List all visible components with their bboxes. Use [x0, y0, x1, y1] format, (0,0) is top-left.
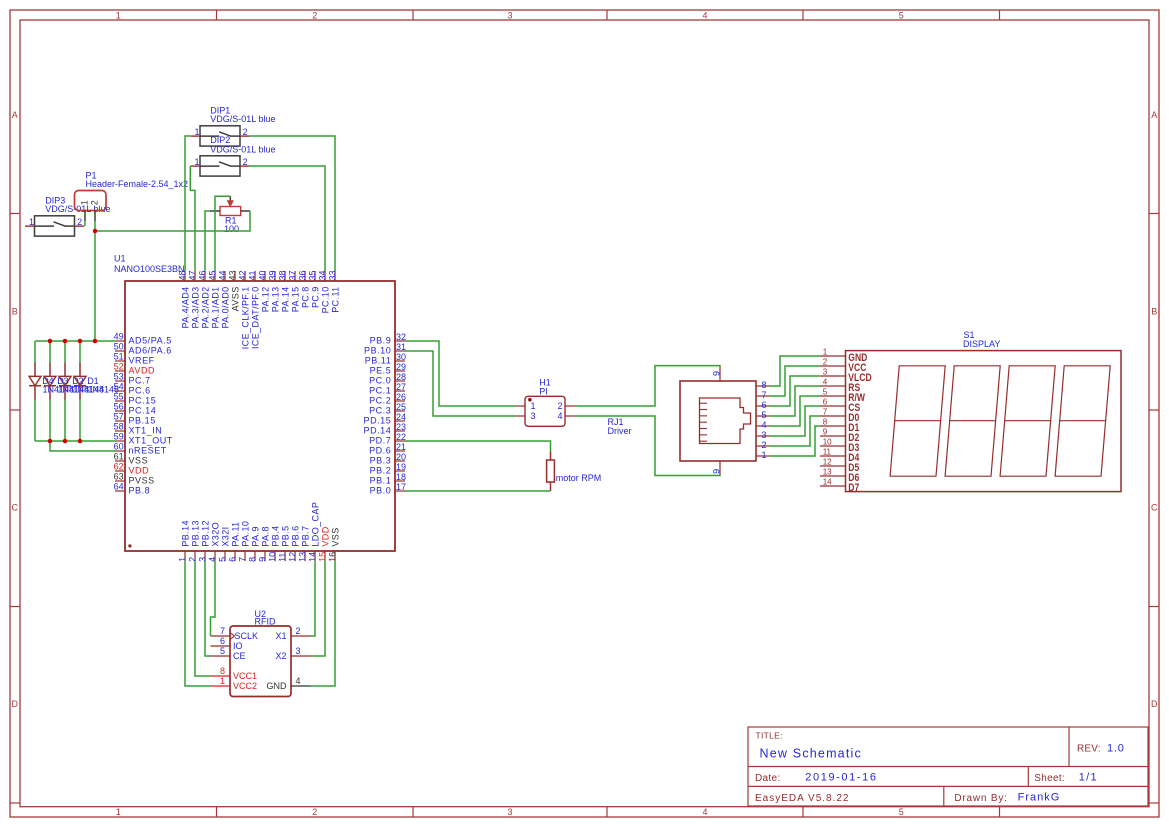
DIP3 pin 1 — [25, 217, 35, 227]
svg-text:PB.10: PB.10 — [364, 345, 391, 355]
svg-text:PC.7: PC.7 — [129, 375, 151, 385]
svg-text:35: 35 — [308, 270, 318, 280]
U1 pin 9 PA.8 — [258, 526, 271, 562]
svg-text:X32I: X32I — [220, 526, 230, 546]
wire RJ1 pin4 to S1 pin5 — [770, 396, 820, 426]
svg-text:RFID: RFID — [255, 616, 276, 626]
svg-text:DISPLAY: DISPLAY — [963, 339, 1000, 349]
svg-text:PB.14: PB.14 — [180, 520, 190, 547]
svg-text:4: 4 — [702, 10, 707, 20]
U1 pin 20 PB.3 — [370, 452, 406, 466]
svg-text:11: 11 — [823, 448, 832, 457]
svg-text:4: 4 — [557, 411, 562, 421]
U1 pin 46 PA.2/AD2 — [198, 270, 211, 328]
svg-text:VDG/S-01L blue: VDG/S-01L blue — [210, 144, 275, 154]
svg-text:PB.13: PB.13 — [190, 520, 200, 547]
U2 pin 1 VCC2 — [211, 676, 258, 691]
svg-text:3: 3 — [296, 646, 301, 656]
svg-text:6: 6 — [220, 636, 225, 646]
D4 labels — [42, 376, 74, 394]
svg-text:VDG/S-01L blue: VDG/S-01L blue — [210, 114, 275, 124]
H1 pin 1 — [515, 401, 536, 411]
U1 pin 19 PB.2 — [370, 462, 406, 476]
svg-text:6: 6 — [761, 400, 766, 410]
svg-text:58: 58 — [114, 422, 124, 432]
svg-text:PB.2: PB.2 — [370, 465, 392, 475]
U1 pin 59 XT1_OUT — [114, 432, 173, 446]
U1 pin 29 PE.5 — [370, 362, 406, 376]
U1 pin 33 PC.11 — [328, 270, 341, 312]
svg-text:PA.12: PA.12 — [260, 286, 270, 312]
svg-text:GND: GND — [267, 681, 288, 691]
svg-text:PE.5: PE.5 — [370, 365, 392, 375]
potentiometer R1 body — [210, 196, 250, 215]
svg-text:C: C — [1151, 503, 1158, 513]
svg-text:PA.13: PA.13 — [270, 286, 280, 312]
DIP2 labels — [210, 135, 275, 154]
svg-text:3: 3 — [507, 807, 512, 817]
svg-text:28: 28 — [396, 372, 406, 382]
svg-text:17: 17 — [396, 482, 406, 492]
svg-text:PA.14: PA.14 — [280, 286, 290, 312]
U1 pin 11 PB.5 — [278, 525, 291, 561]
svg-text:X1: X1 — [275, 631, 286, 641]
svg-text:1: 1 — [194, 157, 199, 167]
U1 pin 12 PB.6 — [288, 525, 301, 561]
svg-text:NANO100SE3BN: NANO100SE3BN — [114, 264, 185, 274]
junction node A at P1 pin2 — [93, 229, 98, 234]
D2 labels — [72, 376, 104, 394]
svg-text:3: 3 — [198, 557, 208, 562]
S1 pin 11 D4 — [820, 448, 860, 465]
wire H1 pin2 to RJ1 pin9 top — [576, 366, 720, 406]
U1 pin 37 PA.15 — [288, 270, 301, 312]
svg-text:3: 3 — [507, 10, 512, 20]
IC U2 body — [230, 626, 291, 697]
RJ1 pin 3 — [756, 430, 770, 440]
svg-text:2: 2 — [296, 626, 301, 636]
svg-text:PA.0/AD0: PA.0/AD0 — [220, 286, 230, 328]
svg-text:31: 31 — [396, 342, 406, 352]
diode D3 1N4148 — [44, 363, 56, 400]
S1 pin 2 VCC — [820, 358, 866, 375]
connector H1 body — [525, 396, 565, 426]
wire D3 branch — [49, 341, 51, 441]
U1 pin 30 PB.11 — [365, 352, 406, 366]
svg-text:PA.2/AD2: PA.2/AD2 — [200, 286, 210, 328]
svg-text:D7: D7 — [848, 482, 859, 494]
svg-text:38: 38 — [278, 270, 288, 280]
S1 pin 13 D6 — [820, 468, 860, 485]
U1 pin 34 PC.10 — [318, 270, 331, 313]
svg-text:VDG/S-01L blue: VDG/S-01L blue — [45, 204, 110, 214]
svg-text:27: 27 — [396, 382, 406, 392]
wire node A down to diode rail — [94, 231, 96, 341]
svg-text:VCC1: VCC1 — [233, 671, 257, 681]
svg-text:9: 9 — [258, 557, 268, 562]
resistor motor RPM — [547, 452, 602, 492]
svg-text:18: 18 — [396, 472, 406, 482]
wire P1 pin2 to node A — [94, 221, 96, 231]
svg-text:PB.7: PB.7 — [300, 525, 310, 546]
svg-text:PC.3: PC.3 — [369, 405, 391, 415]
svg-text:39: 39 — [268, 270, 278, 280]
U2 pin 6 IO — [211, 636, 243, 651]
U1 pin 56 PC.14 — [114, 402, 157, 416]
wire diode lower rail to U1 pin60 — [50, 441, 115, 451]
svg-text:2: 2 — [823, 358, 828, 367]
U1 pin 44 PA.0/AD0 — [218, 270, 231, 328]
U1 pin 49 AD5/PA.5 — [114, 332, 172, 346]
svg-text:CE: CE — [233, 651, 246, 661]
RJ1 pin 8 — [756, 380, 770, 390]
dip switch DIP3 body — [35, 216, 75, 236]
S1 pin 4 RS — [820, 378, 861, 395]
U1 pin 53 PC.7 — [114, 372, 151, 386]
display S1 body — [846, 351, 1122, 492]
svg-text:PA.10: PA.10 — [240, 521, 250, 547]
S1 pin 1 GND — [820, 348, 867, 365]
svg-text:7: 7 — [823, 408, 828, 417]
svg-text:48: 48 — [178, 270, 188, 280]
U1 pin 2 PB.13 — [188, 520, 201, 562]
svg-text:43: 43 — [228, 270, 238, 280]
svg-text:2: 2 — [312, 807, 317, 817]
U1 pin 54 PC.6 — [114, 382, 151, 396]
svg-text:2: 2 — [243, 127, 248, 137]
svg-text:PB.3: PB.3 — [370, 455, 392, 465]
U1 pin 62 VDD — [114, 462, 150, 476]
svg-text:50: 50 — [114, 342, 124, 352]
wire D4 branch — [34, 341, 36, 441]
svg-text:12: 12 — [288, 552, 298, 562]
svg-text:PB.0: PB.0 — [370, 485, 392, 495]
svg-text:61: 61 — [114, 452, 124, 462]
svg-text:8: 8 — [220, 666, 225, 676]
svg-text:2: 2 — [188, 557, 198, 562]
IC U1 NANO100SE3BN labels — [114, 253, 185, 274]
connector P1 Header-Female-2.54_1x2 — [75, 191, 107, 211]
wire RJ1 pin3 to S1 pin6 — [770, 406, 820, 436]
U1 pin 35 PC.9 — [308, 270, 321, 308]
svg-text:nRESET: nRESET — [129, 445, 167, 455]
svg-text:47: 47 — [188, 270, 198, 280]
svg-text:Header-Female-2.54_1x2: Header-Female-2.54_1x2 — [86, 179, 189, 189]
U1 pin 50 AD6/PA.6 — [114, 342, 172, 356]
wire U2 CE to U1 pin3 — [205, 561, 211, 656]
S1 digit 1 — [890, 366, 945, 476]
U1 pin 4 X32O — [208, 522, 221, 562]
svg-text:30: 30 — [396, 352, 406, 362]
RJ1 pin 4 — [756, 420, 770, 430]
svg-text:12: 12 — [823, 458, 832, 467]
junction diode top rail x=95 — [93, 339, 98, 344]
U1 pin 14 LDO_CAP — [308, 502, 321, 562]
wire D2 branch — [64, 341, 66, 441]
svg-text:A: A — [12, 110, 18, 120]
svg-text:X2: X2 — [275, 651, 286, 661]
svg-text:5: 5 — [823, 388, 828, 397]
DIP1 pin 2 — [240, 127, 250, 137]
svg-text:8: 8 — [823, 418, 828, 427]
svg-text:PA.11: PA.11 — [230, 521, 240, 546]
svg-text:32: 32 — [396, 332, 406, 342]
svg-text:55: 55 — [114, 392, 124, 402]
dip switch DIP2 body — [200, 156, 240, 176]
svg-text:PA.9: PA.9 — [250, 526, 260, 546]
svg-text:4: 4 — [702, 807, 707, 817]
U1 pin 25 PC.3 — [369, 402, 406, 416]
wire D1 branch — [79, 341, 81, 441]
svg-text:1.0: 1.0 — [1107, 743, 1125, 755]
U1 pin 18 PB.1 — [370, 472, 406, 486]
wire U2 X2 to U1 pin15 — [311, 561, 326, 656]
svg-text:VCC2: VCC2 — [233, 681, 257, 691]
U1 pin 36 PC.8 — [298, 270, 311, 308]
svg-text:C: C — [12, 503, 19, 513]
svg-text:PB.6: PB.6 — [290, 525, 300, 546]
svg-text:VSS: VSS — [330, 527, 340, 546]
wire H1 pin4 to RJ1 pin9 bottom — [576, 416, 720, 476]
RJ1 pin 5 — [756, 410, 770, 420]
S1 pin 10 D3 — [820, 438, 860, 455]
svg-text:PB.4: PB.4 — [270, 525, 280, 546]
U1 pin 5 X32I — [218, 526, 231, 561]
svg-text:AVDD: AVDD — [129, 365, 156, 375]
svg-text:1: 1 — [116, 807, 121, 817]
U2 pin 5 CE — [211, 646, 246, 661]
S1 pin 14 D7 — [820, 478, 860, 495]
svg-text:56: 56 — [114, 402, 124, 412]
wire DIP2 pin2 to U1 pin34 — [250, 166, 325, 271]
wire U1 pin22 to motor RPM — [405, 441, 551, 452]
diode D4 1N4148 — [29, 363, 41, 400]
svg-text:PA.8: PA.8 — [260, 526, 270, 546]
svg-text:1: 1 — [79, 200, 89, 205]
DIP2 pin 2 — [240, 157, 250, 167]
junction diode top rail x=80 — [78, 339, 83, 344]
U1 pin 58 XT1_IN — [114, 422, 163, 436]
svg-text:PI: PI — [539, 386, 548, 396]
svg-text:11: 11 — [278, 553, 288, 562]
U1 pin 48 PA.4/AD4 — [178, 270, 191, 328]
svg-text:41: 41 — [248, 270, 258, 280]
svg-text:motor RPM: motor RPM — [556, 473, 602, 483]
svg-text:24: 24 — [396, 412, 406, 422]
svg-text:16: 16 — [328, 552, 338, 562]
dip switch DIP1 body — [200, 126, 240, 146]
svg-text:1: 1 — [220, 676, 225, 686]
wire DIP2 pin1 to U1 pin47 — [190, 166, 195, 271]
svg-text:40: 40 — [258, 270, 268, 280]
wire DIP3 pin2 to P1 pin1 — [84, 221, 86, 226]
svg-text:AD6/PA.6: AD6/PA.6 — [129, 345, 172, 355]
connector RJ1 body — [680, 381, 756, 461]
svg-text:7: 7 — [238, 557, 248, 562]
svg-text:26: 26 — [396, 392, 406, 402]
svg-text:45: 45 — [208, 270, 218, 280]
diode D1 1N4148 — [74, 363, 86, 400]
svg-text:AD5/PA.5: AD5/PA.5 — [129, 335, 172, 345]
svg-text:2: 2 — [89, 200, 99, 205]
DIP3 pin 2 — [75, 217, 85, 227]
wire U2 X1 to U1 pin14 — [311, 561, 316, 636]
U2 pin 7 SCLK — [211, 626, 259, 641]
svg-text:7: 7 — [761, 390, 766, 400]
svg-text:PC.11: PC.11 — [330, 286, 340, 312]
U1 pin 41 ICE_DAT/PF.0 — [248, 270, 261, 349]
svg-text:PC.15: PC.15 — [129, 395, 157, 405]
svg-text:5: 5 — [220, 646, 225, 656]
U1 pin 27 PC.1 — [369, 382, 406, 396]
wire DIP1 pin2 to U1 pin33 — [250, 136, 335, 271]
svg-text:EasyEDA V5.8.22: EasyEDA V5.8.22 — [755, 793, 850, 804]
svg-text:3: 3 — [823, 368, 828, 377]
svg-text:VDD: VDD — [129, 465, 150, 475]
P1 pin 2 — [89, 200, 99, 221]
svg-text:B: B — [12, 307, 18, 317]
S1 pin 12 D5 — [820, 458, 860, 475]
svg-text:2: 2 — [243, 157, 248, 167]
svg-text:64: 64 — [114, 482, 124, 492]
IC U2 RFID labels — [255, 609, 276, 627]
U1 pin 64 PB.8 — [114, 482, 151, 496]
svg-text:23: 23 — [396, 422, 406, 432]
svg-text:4: 4 — [208, 557, 218, 562]
H1 pin 2 — [557, 401, 576, 411]
U1 pin 57 PB.15 — [114, 412, 156, 426]
svg-text:1/1: 1/1 — [1079, 772, 1098, 784]
wire RJ1 pin2 to S1 pin7 — [770, 416, 820, 446]
S1 pin 5 R/W — [820, 388, 866, 405]
U1 pin 43 AVSS — [228, 270, 241, 311]
svg-text:PB.1: PB.1 — [370, 475, 392, 485]
svg-text:PA.1/AD1: PA.1/AD1 — [210, 286, 220, 328]
wire U2 VCC1 to U1 pin2 — [195, 561, 211, 676]
svg-text:34: 34 — [318, 270, 328, 280]
svg-text:PC.9: PC.9 — [310, 286, 320, 308]
svg-text:63: 63 — [114, 472, 124, 482]
U1 pin 3 PB.12 — [198, 520, 211, 562]
svg-text:29: 29 — [396, 362, 406, 372]
svg-text:10: 10 — [268, 552, 278, 562]
title block — [748, 727, 1148, 806]
svg-text:51: 51 — [114, 352, 124, 362]
svg-text:IO: IO — [233, 641, 243, 651]
junction diode top rail x=65 — [63, 339, 68, 344]
svg-text:PC.6: PC.6 — [129, 385, 151, 395]
svg-text:1: 1 — [823, 348, 828, 357]
U2 pin 2 X1 — [275, 626, 310, 641]
svg-text:6: 6 — [228, 557, 238, 562]
U1 pin 42 ICE_CLK/PF.1 — [238, 270, 251, 349]
U1 pin 51 VREF — [114, 352, 155, 366]
svg-text:REV:: REV: — [1077, 744, 1101, 755]
wire DIP1 pin1 to U1 pin48 — [185, 136, 190, 271]
diode D2 1N4148 — [59, 363, 71, 400]
svg-text:1N4148: 1N4148 — [43, 384, 75, 394]
RJ1 pin 9 (top) — [711, 366, 721, 381]
wire U2 VCC2 to U1 pin1 — [185, 561, 211, 686]
wire RJ1 pin7 to S1 pin2 — [770, 366, 820, 396]
RJ1 pin 9 (bottom) — [711, 461, 721, 476]
S1 digit 4 — [1055, 366, 1110, 476]
wire RJ1 pin5 to S1 pin4 — [770, 386, 820, 416]
svg-text:B: B — [1151, 307, 1157, 317]
svg-text:Drawn By:: Drawn By: — [954, 793, 1007, 804]
svg-text:New Schematic: New Schematic — [760, 747, 862, 761]
wire node A to R1 right terminal — [95, 211, 250, 231]
svg-text:21: 21 — [396, 442, 406, 452]
DIP1 pin 1 — [191, 127, 201, 137]
wire motor RPM to U1 pin17 — [405, 490, 551, 492]
U1 pin 1 PB.14 — [178, 520, 191, 562]
svg-text:PB.5: PB.5 — [280, 525, 290, 546]
svg-text:PD.7: PD.7 — [369, 435, 391, 445]
svg-text:59: 59 — [114, 432, 124, 442]
S1 pin 9 D2 — [820, 428, 860, 445]
svg-text:5: 5 — [761, 410, 766, 420]
svg-text:AVSS: AVSS — [230, 286, 240, 311]
svg-text:44: 44 — [218, 270, 228, 280]
svg-text:2: 2 — [557, 401, 562, 411]
S1 digit 2 — [945, 366, 1000, 476]
svg-text:15: 15 — [318, 552, 328, 562]
svg-text:1: 1 — [531, 401, 536, 411]
svg-text:FrankG: FrankG — [1018, 792, 1061, 804]
svg-text:VREF: VREF — [129, 355, 155, 365]
U1 pin 39 PA.13 — [268, 270, 281, 312]
RJ1 pin 2 — [756, 440, 770, 450]
svg-text:TITLE:: TITLE: — [756, 731, 783, 741]
U1 pin 60 nRESET — [114, 442, 167, 456]
svg-text:PC.8: PC.8 — [300, 286, 310, 308]
IC U1 body — [125, 281, 395, 551]
wire RJ1 pin6 to S1 pin3 — [770, 376, 820, 406]
svg-text:X32O: X32O — [210, 522, 220, 547]
svg-text:ICE_CLK/PF.1: ICE_CLK/PF.1 — [240, 286, 250, 349]
svg-text:PC.2: PC.2 — [369, 395, 391, 405]
U1 pin 32 PB.9 — [370, 332, 406, 346]
U1 pin 16 VSS — [328, 527, 341, 562]
U1 pin 28 PC.0 — [369, 372, 406, 386]
U1 pin 45 PA.1/AD1 — [208, 270, 221, 328]
svg-text:U1: U1 — [114, 253, 126, 263]
svg-text:XT1_IN: XT1_IN — [129, 425, 163, 435]
U1 pin 22 PD.7 — [369, 432, 406, 446]
svg-text:PD.14: PD.14 — [364, 425, 392, 435]
svg-text:PC.1: PC.1 — [369, 385, 391, 395]
S1 pin 3 VLCD — [820, 368, 872, 385]
U1 pin 63 PVSS — [114, 472, 155, 486]
svg-text:4: 4 — [761, 420, 766, 430]
svg-text:25: 25 — [396, 402, 406, 412]
U1 pin 38 PA.14 — [278, 270, 291, 312]
DIP2 pin 1 — [191, 157, 201, 167]
H1 pin 4 — [557, 411, 576, 421]
svg-text:13: 13 — [298, 552, 308, 562]
U1 pin 7 PA.10 — [238, 521, 251, 562]
svg-text:9: 9 — [823, 428, 828, 437]
DIP3 labels — [45, 196, 110, 215]
svg-text:5: 5 — [899, 807, 904, 817]
svg-text:4: 4 — [823, 378, 828, 387]
svg-text:14: 14 — [308, 552, 318, 562]
svg-text:1: 1 — [29, 217, 34, 227]
U1 pin 31 PB.10 — [364, 342, 406, 356]
svg-text:37: 37 — [288, 270, 298, 280]
svg-text:13: 13 — [823, 468, 832, 477]
